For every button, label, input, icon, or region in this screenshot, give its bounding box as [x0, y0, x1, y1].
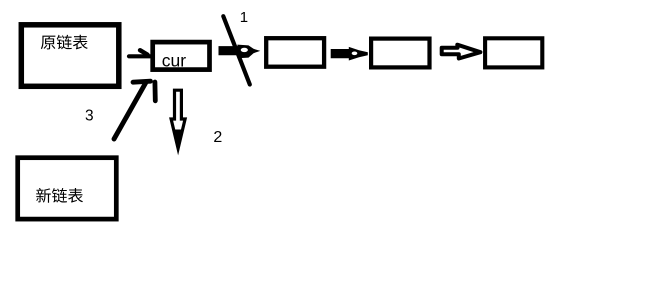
arrow: node A to node B: [331, 47, 368, 61]
label 新链表: [36, 188, 51, 203]
arrow: cur.next pointer (crossed out): [219, 45, 261, 59]
arrow 3 head barb down: [152, 82, 157, 101]
arrow 3 head barb left: [133, 81, 151, 82]
svg-text:2: 2: [213, 129, 222, 146]
svg-text:cur: cur: [162, 50, 186, 70]
label 原链表: [41, 36, 56, 50]
node box C (third next node): [485, 38, 542, 67]
cross-out stroke over cur.next arrow: [223, 16, 250, 84]
node box B (second next node): [371, 39, 429, 68]
arrow 3: from 新链表 area up to cur (shaft): [114, 83, 146, 139]
arrow 2 solid apex: [173, 130, 183, 151]
arrow: node B to node C (hollow block arrow): [442, 45, 481, 59]
node box cur: [153, 42, 210, 70]
node box "原链表" (original list head): [21, 25, 119, 87]
svg-text:3: 3: [85, 107, 94, 124]
arrow 2: hollow down arrow under cur: [171, 90, 185, 148]
svg-text:1: 1: [240, 9, 248, 26]
wire: arrow from 原链表 box to cur box: [129, 54, 153, 58]
node box "新链表" (new list head): [18, 158, 117, 219]
node box A (first next node): [266, 38, 324, 66]
